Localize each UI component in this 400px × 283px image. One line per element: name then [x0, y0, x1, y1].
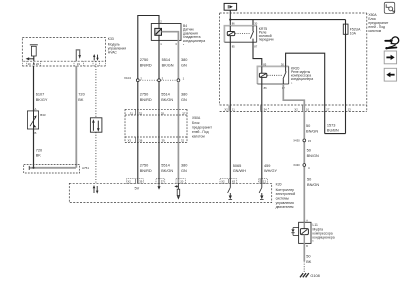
svg-text:380: 380 — [181, 58, 187, 62]
svg-text:39: 39 — [162, 139, 166, 143]
A751 internal gray bus — [29, 166, 76, 170]
svg-text:10A: 10A — [350, 32, 357, 36]
K20 ref label — [276, 182, 296, 209]
svg-text:X2: X2 — [127, 179, 131, 183]
pass-through pin ticks — [135, 110, 137, 143]
ECM pin cell boxes — [126, 179, 267, 184]
svg-text:63: 63 — [232, 179, 236, 183]
ECM internal low-side driver for pin 63 — [228, 183, 233, 199]
svg-text:GN: GN — [181, 98, 187, 102]
wire fuse F52UA output down through pin 13 — [345, 34, 347, 133]
back navigation arrow box — [384, 68, 396, 81]
pressure sensor B4 box — [151, 24, 181, 41]
wire 5514 X104 to fuse block — [158, 82, 160, 184]
A/C refrigerant pressure sensor B4 wire 2750 top route — [138, 16, 159, 81]
wire 720 BK from B33 pin B to splice A751 — [33, 129, 35, 168]
svg-text:A: A — [35, 107, 37, 111]
svg-text:12: 12 — [263, 179, 267, 183]
svg-text:X2: X2 — [221, 179, 225, 183]
KR20 coil-contact dotted link — [268, 74, 283, 76]
svg-text:G108: G108 — [310, 274, 319, 278]
wire 720 label — [78, 92, 84, 102]
ECM pin labels X2/39, 37, 20, X2/63, 12 — [127, 179, 266, 183]
F52UA label — [350, 27, 361, 35]
KR20 coil — [259, 66, 266, 84]
feed wire from B+ icon — [229, 10, 231, 26]
svg-text:86: 86 — [264, 86, 267, 90]
svg-text:BN/RD: BN/RD — [140, 64, 152, 68]
inline connector X104 — [136, 79, 179, 82]
svg-text:85: 85 — [263, 62, 266, 66]
svg-text:20: 20 — [36, 62, 40, 66]
svg-text:GN: GN — [181, 64, 187, 68]
K33 pin cell ticks — [22, 61, 105, 66]
wire 380 X104 to fuse block (gray) — [177, 82, 179, 184]
svg-text:50: 50 — [306, 124, 310, 128]
svg-text:5065: 5065 — [233, 164, 242, 168]
connector view icon (top right) — [384, 2, 394, 13]
svg-text:34: 34 — [264, 107, 268, 111]
svg-text:5514: 5514 — [161, 92, 170, 96]
svg-text:2750: 2750 — [140, 58, 149, 62]
svg-text:передачи: передачи — [259, 37, 274, 41]
KR75 coil-contact dotted link — [235, 33, 250, 35]
wire 50 BK clutch to ground (gray) — [303, 243, 305, 261]
K33 internal hook wire with down arrow (pin 19) — [76, 50, 81, 61]
svg-text:X3: X3 — [128, 139, 132, 143]
B4 ref label — [183, 24, 205, 43]
svg-text:кондиционера: кондиционера — [183, 39, 205, 43]
B4 transducer symbol — [155, 28, 162, 35]
svg-text:предохранит: предохранит — [192, 125, 212, 129]
KR20 pin labels bottom 86 / 87 — [264, 86, 286, 90]
svg-text:BK/GY: BK/GY — [36, 98, 48, 102]
K33 pins 10 / 20 — [28, 62, 40, 66]
wire 2750 X104 to fuse block — [137, 82, 139, 184]
svg-text:X430: X430 — [293, 139, 300, 143]
svg-text:2750: 2750 — [140, 164, 149, 168]
svg-text:BK: BK — [306, 260, 312, 264]
wire 6107 BK/GY from K33 pin 10/20 to B33 — [33, 66, 35, 111]
ECM internal signal arrow and resistor for 380 — [174, 183, 180, 199]
svg-text:32: 32 — [181, 139, 185, 143]
ground G108 — [300, 273, 309, 277]
wire 5514 BK/GN from B4 pin 1 down — [158, 35, 160, 80]
wire labels segment above ECM — [140, 164, 188, 173]
svg-text:кондиционера: кондиционера — [291, 77, 313, 81]
pass-through top pin labels 31/32, 35, 37 — [130, 111, 186, 115]
svg-text:BK/GN: BK/GN — [161, 169, 173, 173]
svg-text:30: 30 — [281, 62, 284, 66]
svg-text:GN: GN — [181, 169, 187, 173]
pass-through block label X50A — [192, 116, 212, 138]
A/C compressor clutch relay KR20 box — [257, 66, 289, 84]
forward navigation arrow box — [384, 51, 396, 64]
svg-text:GN/WH: GN/WH — [233, 169, 246, 173]
temperature sensor B33 — [27, 111, 38, 129]
wire labels segment below X104 — [140, 92, 188, 102]
ECM internal serial data arrows — [93, 185, 99, 194]
svg-text:5V: 5V — [135, 186, 140, 191]
svg-text:31: 31 — [130, 111, 134, 115]
svg-text:HVAC: HVAC — [108, 51, 118, 55]
K33 serial-data up/down arrows — [93, 54, 99, 61]
svg-text:32: 32 — [139, 111, 143, 115]
svg-text:380: 380 — [181, 92, 187, 96]
KR75 pin labels top 86 / 30 — [232, 22, 258, 26]
B4 internal wire through symbol — [158, 24, 160, 29]
svg-text:87: 87 — [254, 44, 257, 48]
svg-text:720: 720 — [36, 148, 42, 152]
svg-text:BN/GN: BN/GN — [307, 154, 319, 158]
KR75 pin labels bottom 85 / 87 — [232, 44, 258, 48]
wire 50 label upper — [306, 124, 318, 133]
KR20 switch contact — [283, 66, 286, 84]
underhood fuse block pass-through section (dashed) — [125, 109, 187, 142]
KR20 ref label — [291, 67, 313, 85]
svg-text:5514: 5514 — [162, 58, 171, 62]
HVAC control module K33 box — [22, 38, 105, 66]
svg-text:BK/GN: BK/GN — [161, 98, 173, 102]
wire KR20 pin 30 feed route from pin 27 — [286, 53, 325, 133]
wire 6107 label — [36, 92, 48, 102]
svg-text:85: 85 — [232, 44, 235, 48]
svg-text:BN/RD: BN/RD — [140, 98, 152, 102]
svg-text:20: 20 — [180, 179, 184, 183]
svg-text:BU/BN: BU/BN — [327, 129, 339, 133]
svg-text:X104: X104 — [124, 76, 131, 80]
svg-text:39: 39 — [139, 179, 143, 183]
svg-text:BK/GN: BK/GN — [162, 64, 174, 68]
KR75 switch contact — [250, 26, 253, 43]
svg-text:720: 720 — [78, 92, 84, 96]
wire 1573 jumper bottom link — [325, 133, 346, 135]
svg-text:37: 37 — [161, 179, 165, 183]
wire 50 label lower — [307, 178, 319, 187]
wire 50 label mid — [307, 149, 319, 158]
svg-text:35: 35 — [161, 111, 165, 115]
svg-text:19: 19 — [77, 62, 81, 66]
svg-text:13: 13 — [348, 107, 352, 111]
wire KR20 coil low side to ECM (459) — [261, 84, 263, 183]
wire labels segment above X104 — [140, 58, 188, 68]
svg-text:37: 37 — [182, 111, 186, 115]
svg-text:BK: BK — [36, 154, 42, 158]
ECM internal ground arrow for 5514 — [158, 183, 161, 189]
wire KR75 pin 87 to KR20 pin 85 — [253, 42, 262, 66]
svg-text:K33: K33 — [108, 37, 114, 41]
svg-text:X2: X2 — [294, 107, 298, 111]
X50A bottom pin row ticks — [229, 106, 302, 111]
svg-text:WH/GY: WH/GY — [264, 169, 277, 173]
dashed wire tail to ground — [303, 261, 305, 272]
ECM internal low-side driver for pin 12 — [259, 183, 264, 199]
clutch coil — [300, 222, 308, 243]
wire bus to fuse F52UA — [345, 20, 347, 25]
svg-text:36: 36 — [139, 139, 143, 143]
battery positive feed icon — [224, 3, 237, 10]
svg-text:86: 86 — [232, 22, 235, 26]
wire bus to KR75 pin 30 — [252, 20, 254, 26]
svg-text:BN/GN: BN/GN — [306, 129, 318, 133]
svg-text:BN/GN: BN/GN — [307, 183, 319, 187]
KR20 pin labels top 85 / 30 — [263, 62, 284, 66]
clutch suppression diode — [291, 228, 298, 236]
wire 720 lower label — [36, 148, 42, 157]
svg-text:50: 50 — [307, 178, 311, 182]
X50A bottom pin labels X2/11, 34, X2/10, 27, 13 — [224, 107, 351, 111]
svg-text:A751: A751 — [82, 166, 89, 170]
svg-text:27: 27 — [326, 107, 330, 111]
KR75 ref label — [259, 27, 274, 42]
KR75 coil — [227, 26, 234, 43]
wire KR75 coil low side to ECM (5065) — [229, 42, 231, 183]
svg-text:капотом: капотом — [368, 29, 381, 33]
wire 459 label — [264, 164, 277, 173]
wire 380 GN (gray) from symbol to pin 3 — [162, 32, 179, 80]
svg-text:двигателем: двигателем — [276, 205, 295, 209]
junction node on bus — [229, 19, 231, 21]
svg-text:2750: 2750 — [140, 92, 149, 96]
wire 5065 label — [233, 164, 246, 173]
svg-text:30: 30 — [254, 22, 257, 26]
inline connector X430 pin 4 — [303, 164, 306, 167]
svg-text:кондиционера: кондиционера — [313, 235, 335, 239]
powertrain relay KR75 box — [224, 25, 257, 42]
A/C compressor clutch L11 box — [299, 222, 311, 243]
svg-text:11: 11 — [232, 107, 235, 111]
svg-text:50: 50 — [307, 149, 311, 153]
svg-text:459: 459 — [264, 164, 270, 168]
wire 720 BK (gray) from K33 pin 19 to splice A751 — [75, 66, 77, 168]
K33 label — [108, 37, 126, 55]
svg-text:10: 10 — [306, 107, 310, 111]
ECM K20 dashed box — [69, 183, 271, 202]
svg-text:K20: K20 — [276, 182, 282, 186]
svg-text:6107: 6107 — [36, 92, 45, 96]
pass-through bottom pin labels X3/36, 39, 32 — [128, 139, 185, 143]
ECM pin ticks — [135, 179, 260, 183]
svg-text:1573: 1573 — [327, 123, 336, 127]
svg-text:B33: B33 — [40, 113, 46, 117]
harness twist navigation icon — [385, 37, 398, 50]
B+ bus inside fuse block — [230, 19, 345, 21]
inline connector box with up/down arrows on serial data line — [90, 118, 102, 132]
splice pack A751 dashed box — [24, 165, 80, 173]
svg-text:15: 15 — [308, 139, 312, 143]
svg-text:10: 10 — [28, 62, 32, 66]
underhood fuse/relay block X50A main dashed box — [220, 13, 367, 111]
wire 1573 label — [327, 123, 339, 132]
svg-text:X50A: X50A — [192, 116, 201, 120]
up arrow on wire between pins 10/20 — [33, 62, 35, 65]
svg-text:BK: BK — [78, 98, 84, 102]
svg-text:капотом: капотом — [192, 135, 205, 139]
L11 ref label — [313, 223, 335, 243]
svg-text:BN/RD: BN/RD — [140, 169, 152, 173]
clutch feed wire 50 BN/GN (gray) — [303, 111, 305, 222]
wire 50 BK label — [306, 255, 312, 264]
X50A main label (top right) — [368, 13, 388, 33]
serial data dotted line K33 to K20 — [95, 61, 97, 183]
fuse F52UA 10A — [343, 24, 348, 34]
svg-text:B: B — [35, 131, 37, 135]
svg-text:5514: 5514 — [161, 164, 170, 168]
svg-text:380: 380 — [181, 164, 187, 168]
svg-text:Блок: Блок — [192, 121, 200, 125]
K33 internal driver element (sensor feed) — [30, 45, 38, 61]
svg-text:50: 50 — [306, 255, 310, 259]
svg-text:X430: X430 — [293, 163, 300, 167]
K33 internal left-pointing arrow — [26, 57, 34, 60]
svg-text:X2: X2 — [224, 107, 228, 111]
wire KR20 pin 87 to clutch feed (gray) — [283, 84, 304, 111]
svg-text:елей - Под: елей - Под — [192, 130, 209, 134]
inline connector X430 pin 15 — [303, 139, 306, 142]
